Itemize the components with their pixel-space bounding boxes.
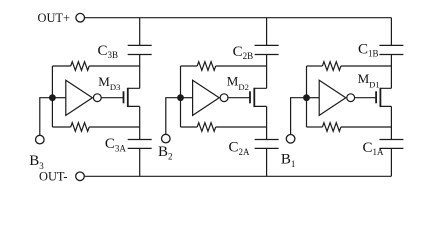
svg-text:B1: B1 xyxy=(281,151,296,169)
svg-text:OUT+: OUT+ xyxy=(38,11,70,25)
node stage3 input junction xyxy=(49,94,56,101)
wire stage1 cap branch lower xyxy=(390,148,392,176)
wire stage1 top feedback left xyxy=(307,65,323,67)
wire stage2 gate xyxy=(228,97,250,99)
wire stage1 bottom feedback right xyxy=(341,126,392,128)
wire stage1 gate xyxy=(355,97,377,99)
wire stage1 left feedback vertical xyxy=(306,66,308,127)
capacitor C_3B xyxy=(128,45,152,54)
wire stage1 cap branch upper xyxy=(390,18,392,46)
resistor stage1 top feedback xyxy=(322,62,340,71)
svg-text:B2: B2 xyxy=(158,144,173,162)
wire stage1 cap to drain xyxy=(390,55,392,89)
resistor stage1 bottom feedback xyxy=(322,123,340,132)
wire stage3 bottom feedback left xyxy=(52,126,70,128)
terminal B1 xyxy=(286,135,295,144)
wire stage1 source to cap xyxy=(390,106,392,139)
wire stage3 left feedback vertical xyxy=(51,66,53,127)
svg-text:B3: B3 xyxy=(29,153,44,171)
op-amp inverter stage3 xyxy=(66,80,93,115)
op-amp inverter stage1 xyxy=(319,80,346,115)
svg-text:OUT-: OUT- xyxy=(39,170,67,184)
capacitor C_2B xyxy=(255,45,279,54)
svg-text:C3A: C3A xyxy=(105,136,127,154)
wire stage2 bottom feedback right xyxy=(216,126,267,128)
wire stage2 cap to drain xyxy=(266,55,268,89)
wire stage3 top feedback right xyxy=(89,65,140,67)
capacitor C_1B xyxy=(379,45,403,54)
wire stage2 inverter input xyxy=(181,97,193,99)
terminal OUT+ xyxy=(76,13,85,22)
wire stage3 source to cap xyxy=(139,106,141,139)
transistor M_D1 xyxy=(376,88,380,107)
transistor M_D2 xyxy=(250,88,254,107)
wire stage1 bottom feedback left xyxy=(307,126,323,128)
terminal B2 xyxy=(162,134,171,143)
wire stage2 cap branch upper xyxy=(266,18,268,46)
svg-text:C1A: C1A xyxy=(363,140,385,157)
wire stage3 gate xyxy=(101,97,123,99)
transistor M_D3 xyxy=(124,88,128,107)
wire stage3 top feedback left xyxy=(52,65,70,67)
wire top rail OUT+ xyxy=(85,17,392,19)
svg-text:C2B: C2B xyxy=(233,44,254,61)
wire stage2 cap branch lower xyxy=(266,148,268,176)
node stage1 input junction xyxy=(303,94,310,101)
svg-text:MD1: MD1 xyxy=(358,71,380,89)
svg-text:C2A: C2A xyxy=(229,140,251,158)
svg-text:MD2: MD2 xyxy=(227,74,249,92)
capacitor C_2A xyxy=(255,140,279,149)
wire stage2 top feedback left xyxy=(181,65,198,67)
svg-text:C3B: C3B xyxy=(98,43,119,60)
resistor stage3 top feedback xyxy=(71,62,90,71)
wire stage3 cap branch lower xyxy=(139,148,141,176)
svg-text:C1B: C1B xyxy=(358,41,379,58)
terminal B3 xyxy=(36,135,45,144)
node stage2 input junction xyxy=(177,94,184,101)
wire stage2 top feedback right xyxy=(216,65,267,67)
svg-text:MD3: MD3 xyxy=(98,74,120,92)
wire stage3 B3 stub xyxy=(40,98,53,136)
wire stage2 B2 stub xyxy=(166,98,181,135)
capacitor C_3A xyxy=(128,140,152,149)
wire stage3 inverter input xyxy=(52,97,65,99)
resistor stage2 top feedback xyxy=(197,62,216,71)
wire stage3 bottom feedback right xyxy=(89,126,140,128)
wire stage2 left feedback vertical xyxy=(180,66,182,127)
wire stage1 inverter input xyxy=(307,97,320,99)
wire stage2 source to cap xyxy=(266,106,268,139)
resistor stage2 bottom feedback xyxy=(197,123,216,132)
terminal OUT- xyxy=(76,172,85,181)
capacitor C_1A xyxy=(379,140,403,149)
wire stage3 cap branch upper xyxy=(139,18,141,46)
op-amp inverter stage2 xyxy=(193,80,220,115)
wire stage1 B1 stub xyxy=(291,98,307,135)
wire stage2 bottom feedback left xyxy=(181,126,198,128)
resistor stage3 bottom feedback xyxy=(71,123,90,132)
wire stage1 top feedback right xyxy=(341,65,392,67)
wire bottom rail OUT- xyxy=(85,175,392,177)
wire stage3 cap to drain xyxy=(139,55,141,89)
